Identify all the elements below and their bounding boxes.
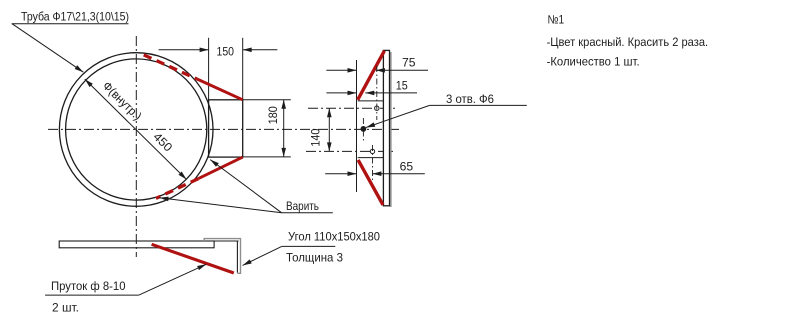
bottom view: ring flat bar (59, 241, 238, 248)
leader 3 holes F6 (366, 92, 527, 127)
svg-text:15: 15 (396, 79, 408, 93)
svg-text:65: 65 (400, 159, 414, 173)
svg-text:Труба Ф17\21,3(10\15): Труба Ф17\21,3(10\15) (21, 10, 129, 24)
label Truba F17\21,3(10\15) (12, 10, 129, 24)
svg-text:3 отв. Ф6: 3 отв. Ф6 (446, 92, 494, 106)
dimension 150 (159, 44, 278, 58)
side view: angle plate (383, 50, 390, 207)
svg-text:Варить: Варить (286, 199, 319, 213)
centerline vertical (ring axis) (135, 36, 137, 257)
dimension 140 (308, 108, 331, 151)
bottom view: angle piece grey shadow (204, 239, 240, 274)
svg-text:№1: №1 (548, 12, 565, 26)
svg-text:Угол 110х150х180: Угол 110х150х180 (288, 230, 380, 244)
svg-text:450: 450 (150, 130, 175, 155)
side view: bottom rod triangle (red hypotenuse) (358, 158, 384, 205)
bottom rod (front view, dashed hidden part) (156, 179, 198, 199)
label Tolschina 3 (286, 250, 343, 264)
label F(vnutr.) rotated (100, 79, 145, 123)
svg-text:2 шт.: 2 шт. (52, 300, 79, 314)
svg-text:Пруток ф 8-10: Пруток ф 8-10 (51, 279, 126, 293)
bottom view: red rod (152, 244, 234, 273)
svg-text:-Количество 1 шт.: -Количество 1 шт. (547, 55, 640, 69)
dimension 75 (326, 56, 428, 73)
svg-text:-Цвет красный. Красить 2 раза.: -Цвет красный. Красить 2 раза. (547, 35, 709, 49)
leader Truba with arrow (12, 24, 83, 72)
side view: hole bottom (370, 145, 374, 182)
bottom view: angle vertical leg (236, 241, 238, 273)
top rod (front view, solid part to plate corner) (197, 79, 243, 100)
front view: ring tube outer circle (59, 53, 213, 207)
svg-text:180: 180 (266, 106, 280, 124)
front view: angle plate rectangle (209, 38, 243, 157)
svg-text:150: 150 (217, 44, 235, 58)
svg-text:140: 140 (308, 128, 322, 146)
dimension 65 (325, 159, 425, 176)
side view: hole middle (361, 118, 366, 141)
label Prutok f 8-10 with leader (45, 264, 206, 295)
side view: hole top (375, 66, 379, 120)
label 2 sht. (52, 300, 79, 314)
label Ugol 110x150x180 with leader (243, 230, 381, 266)
note line color (547, 35, 709, 49)
dimension 450 diagonal line with arrows (85, 79, 187, 179)
label 450 rotated (150, 130, 175, 155)
side view: top rod triangle (red hypotenuse) (358, 51, 385, 101)
side view: rod tip extension line (356, 60, 358, 192)
svg-text:Толщина 3: Толщина 3 (286, 250, 343, 264)
dimension 180 (243, 100, 291, 157)
label Varit with two leaders (160, 160, 333, 213)
top rod (front view, dashed hidden part) (144, 55, 197, 79)
note block N1 (548, 12, 565, 26)
note line quantity (547, 55, 640, 69)
front view: ring tube inner circle (66, 59, 207, 200)
centerline horizontal (main axis) (48, 128, 399, 130)
dimension 15 (326, 79, 417, 96)
hole centerline bottom (horizontal dash-dot) (306, 150, 396, 152)
svg-text:75: 75 (402, 56, 416, 70)
bottom rod (front view, solid part from plate corner) (198, 157, 242, 179)
hole centerline top (horizontal dash-dot) (308, 107, 396, 109)
